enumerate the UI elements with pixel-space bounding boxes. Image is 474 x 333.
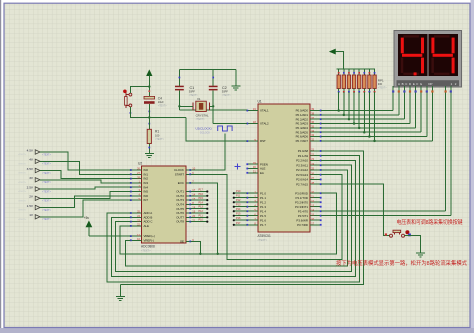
wire net OE joins bus: [190, 241, 200, 253]
svg-text:P1.4: P1.4: [260, 209, 266, 213]
node junction VCC-button: [148, 85, 150, 87]
wire net P0.4 to segment E: [321, 92, 416, 129]
U1 pin 33 P0.6/AD6: [296, 133, 322, 138]
wire net VREF- bus to P2.4: [126, 170, 348, 266]
svg-text:AT89C51: AT89C51: [258, 234, 271, 238]
capacitor C4 10uF electrolytic: [130, 90, 168, 124]
battery V1 4.5V input source: [18, 148, 52, 156]
resistor R1 100: [147, 118, 164, 154]
display pin 1 digit common: [445, 86, 447, 93]
svg-text:EA: EA: [260, 171, 264, 175]
wire C1 to XTAL1 node: [178, 90, 180, 110]
U1 pin 13 P3.3/INT1: [295, 203, 322, 208]
display pin G: [426, 86, 428, 93]
U2 pin 26 IN0: [130, 167, 148, 172]
svg-text:P10: P10: [199, 219, 204, 222]
svg-text:30PF: 30PF: [189, 89, 196, 93]
U1 pin 37 P0.2/AD2: [296, 116, 322, 121]
ground for mode button: [416, 253, 425, 257]
node RST junction: [148, 116, 150, 118]
push button mode switch: [390, 230, 405, 237]
svg-text:RST: RST: [260, 139, 266, 143]
resistor RP1-8: [373, 69, 376, 93]
svg-text:<TEXT>: <TEXT>: [42, 200, 52, 203]
battery V7 1.5V input source: [18, 204, 52, 212]
U1 pin 27 P2.6/A14: [296, 176, 322, 181]
svg-text:P2.3/A11: P2.3/A11: [296, 163, 308, 167]
svg-text:IN7: IN7: [144, 198, 149, 202]
svg-text:DP: DP: [428, 82, 432, 86]
battery V8 1V input source: [18, 213, 52, 221]
wire net 1.5V to IN6: [40, 196, 131, 208]
U1 pin 35 P0.4/AD4: [296, 125, 322, 130]
svg-text:<TEXT>: <TEXT>: [18, 181, 27, 184]
wire net P0.3 to segment D: [321, 92, 410, 125]
U1 pin 5 P1.4: [246, 208, 266, 213]
U1 pin 18 XTAL2: [246, 120, 269, 125]
U1 pin 11 P3.1/TXD: [295, 194, 321, 199]
wire net P0.2 to segment C: [321, 92, 404, 120]
battery V6 2V input source: [18, 195, 52, 203]
display pin 2 digit common: [450, 86, 452, 93]
U1 pin 14 P3.4/T0: [298, 208, 322, 213]
wire net P0.0 to segment A: [321, 92, 393, 112]
U2 pin 23 ADD C: [130, 218, 153, 223]
svg-text:CRYSTAL: CRYSTAL: [196, 114, 209, 118]
U1 pin 26 P2.5/A13: [296, 171, 322, 176]
svg-text:P17: P17: [236, 222, 241, 225]
resistor RP1-6: [363, 69, 366, 93]
svg-text:<TEXT>: <TEXT>: [222, 94, 232, 97]
crystal X1: [193, 97, 209, 121]
svg-text:P11: P11: [199, 214, 204, 217]
svg-text:P14: P14: [199, 201, 204, 204]
svg-text:P0.7/AD7: P0.7/AD7: [296, 139, 309, 143]
wire clock source to U2 CLOCK pin: [190, 134, 225, 171]
wire crystal right to C2 node: [209, 105, 213, 107]
wire net ground bus to P2.0: [120, 151, 363, 285]
wire ground branch: [119, 285, 121, 297]
IC U2 ADC0808 body: [138, 162, 186, 253]
svg-text:P3.7/RD: P3.7/RD: [297, 223, 308, 227]
ground below R1: [145, 154, 154, 158]
node label P14 on U2 OUT4: [190, 201, 208, 205]
U1 pin 19 XTAL1: [246, 107, 269, 112]
svg-text:<TEXT>: <TEXT>: [18, 218, 27, 221]
battery V3 3.5V input source: [18, 167, 52, 175]
svg-text:P2.1/A9: P2.1/A9: [298, 154, 309, 158]
svg-text:P16: P16: [199, 193, 204, 196]
display segment label strip: [397, 80, 460, 86]
power VCC terminal for resistor pack: [330, 49, 344, 69]
resistor RP1-5: [357, 69, 360, 93]
U2 pin 22 ALE: [130, 223, 149, 228]
svg-text:P1.5: P1.5: [260, 214, 266, 218]
svg-text:P17: P17: [199, 189, 204, 192]
display pin A: [392, 86, 394, 93]
svg-text:<TEXT>: <TEXT>: [42, 163, 52, 166]
battery V5 2.5V input source: [18, 185, 52, 193]
wire cap common bus: [179, 69, 236, 71]
U1 pin 12 P3.2/INT0: [295, 199, 322, 204]
display pin D: [409, 86, 411, 93]
U1 pin 4 P1.3: [246, 203, 266, 208]
U1 pin 7 P1.6: [246, 217, 266, 222]
svg-text:<TEXT>: <TEXT>: [42, 190, 52, 193]
node label P15 on U1 P1.5: [233, 213, 247, 217]
U2 pin 6 START: [175, 171, 195, 176]
U2 pin 21 OUT8: [176, 218, 195, 223]
wire net ALE to P3.0: [120, 193, 336, 254]
wire C2 to XTAL2 node: [212, 90, 214, 123]
svg-text:30PF: 30PF: [222, 89, 229, 93]
decimal point of digit 1: [414, 72, 417, 75]
wire XTAL2 net: [213, 122, 247, 124]
svg-text:<TEXT>: <TEXT>: [18, 209, 27, 212]
U1 pin 15 P3.5/T1: [298, 212, 322, 217]
svg-text:<TEXT>: <TEXT>: [42, 181, 52, 184]
U2 pin 12 VREF(+): [130, 233, 155, 238]
svg-text:<TEXT>: <TEXT>: [158, 105, 168, 108]
red actuator dot of reset button: [123, 90, 127, 94]
svg-text:P1.3: P1.3: [260, 205, 266, 209]
node label P12 on U2 OUT6: [190, 210, 208, 214]
svg-text:P15: P15: [199, 197, 204, 200]
U1 pin 38 P0.1/AD1: [296, 112, 322, 117]
svg-text:P3.2/INT0: P3.2/INT0: [295, 200, 308, 204]
node label P16 on U2 OUT2: [190, 193, 208, 197]
node label P10 on U2 OUT8: [190, 219, 208, 223]
svg-text:P1.7: P1.7: [260, 223, 266, 227]
svg-text:P2.4/A12: P2.4/A12: [296, 168, 308, 172]
ground for caps: [231, 70, 240, 91]
svg-text:P13: P13: [236, 204, 241, 207]
wire RST rail down and to U1 RST pin: [186, 118, 247, 142]
U2 pin 9 OE: [180, 238, 194, 243]
U2 pin 2 IN4: [130, 184, 148, 189]
svg-text:P3.5/T1: P3.5/T1: [298, 214, 309, 218]
U2 pin 17 OUT1: [176, 188, 195, 193]
resistor RP1-4: [352, 69, 355, 93]
U1 pin 24 P2.3/A11: [296, 162, 321, 167]
wire net 2.5V to IN4: [40, 187, 131, 189]
svg-text:10uF: 10uF: [158, 100, 164, 104]
wire VCC to C4 top: [148, 87, 150, 97]
U1 pin 34 P0.5/AD5: [296, 129, 322, 134]
U1 pin 3 P1.2: [246, 199, 266, 204]
node label P17 on U2 OUT1: [190, 189, 208, 193]
node label P16 on U1 P1.6: [233, 217, 247, 221]
node junction OE: [199, 253, 201, 255]
power +5V terminal at ADC: [84, 216, 92, 236]
svg-text:P12: P12: [199, 210, 204, 213]
U1 pin 29 PSEN: [246, 161, 267, 166]
svg-text:P16: P16: [236, 217, 241, 220]
svg-text:P1.0: P1.0: [260, 191, 266, 195]
wire net 1V to IN7: [40, 200, 131, 217]
wire net START to P2.5: [190, 174, 341, 259]
svg-text:C2: C2: [222, 86, 227, 90]
node label P11 on U1 P1.1: [233, 195, 247, 199]
svg-text:X1: X1: [197, 97, 201, 101]
U1 pin 22 P2.1/A9: [298, 152, 322, 157]
U1 pin 25 P2.4/A12: [296, 167, 322, 172]
svg-text:<TEXT>: <TEXT>: [141, 248, 151, 252]
svg-text:P10: P10: [236, 190, 241, 193]
U2 pin 16 VREF(-): [130, 237, 154, 242]
IC U1 AT89C51 microcontroller body: [258, 100, 311, 242]
node marker on C2 wire: [212, 77, 214, 79]
svg-text:R1: R1: [155, 130, 159, 134]
node red marker at button left terminal: [385, 233, 387, 235]
svg-text:<TEXT>: <TEXT>: [18, 162, 27, 165]
wire net ADD C to P2.3: [116, 165, 352, 271]
resistor RP1-2: [342, 69, 345, 93]
node label P17 on U1 P1.7: [233, 222, 247, 226]
U2 pin 20 OUT7: [176, 214, 195, 219]
U2 pin 14 OUT2: [176, 193, 195, 198]
svg-text:1.5V: 1.5V: [27, 204, 34, 208]
svg-text:P2.5/A13: P2.5/A13: [296, 173, 308, 177]
svg-text:XTAL1: XTAL1: [260, 109, 269, 113]
U1 pin 17 P3.7/RD: [297, 222, 322, 227]
U2 pin 10 CLOCK: [174, 167, 196, 172]
U2 pin 27 IN1: [130, 171, 148, 176]
U1 pin 9 RST: [246, 138, 266, 143]
U2 pin 5 IN7: [130, 197, 148, 202]
svg-text:U2(CLOCK): U2(CLOCK): [196, 127, 212, 131]
U2 pin 28 IN2: [130, 175, 148, 180]
wire net P3.4 to display digit 1: [321, 93, 446, 212]
svg-text:VREF(-): VREF(-): [144, 238, 155, 242]
display pin DP: [431, 86, 433, 93]
svg-text:<TEXT>: <TEXT>: [42, 153, 52, 156]
svg-text:按下为电压表模式显示第一路，松开为8路轮流采集模式: 按下为电压表模式显示第一路，松开为8路轮流采集模式: [336, 259, 467, 267]
capacitor C1 30PF: [175, 70, 198, 97]
svg-text:P1.6: P1.6: [260, 218, 266, 222]
wire button bottom to RST rail: [130, 107, 186, 118]
U1 pin 10 P3.0/RXD: [295, 190, 321, 195]
svg-text:RP1: RP1: [378, 78, 384, 82]
U1 pin 2 P1.1: [246, 194, 266, 199]
svg-text:XTAL2: XTAL2: [260, 122, 269, 126]
U1 pin 23 P2.2/A10: [296, 157, 322, 162]
svg-text:C4: C4: [158, 96, 162, 100]
svg-text:ALE: ALE: [144, 224, 150, 228]
U1 pin 39 P0.0/AD0: [296, 107, 322, 112]
svg-text:3.5V: 3.5V: [27, 167, 34, 171]
svg-text:OUT8: OUT8: [176, 220, 184, 224]
svg-text:U1: U1: [258, 100, 262, 104]
wire net P0.5 to segment F: [321, 92, 421, 133]
svg-text:P1.2: P1.2: [260, 200, 266, 204]
wire net 3V to IN3: [40, 180, 131, 183]
U2 pin 1 IN3: [130, 180, 148, 185]
node label P11 on U2 OUT7: [190, 214, 208, 218]
svg-text:P3.1/TXD: P3.1/TXD: [295, 196, 308, 200]
wire net ADD A to P2.1: [107, 156, 360, 282]
svg-text:<TEXT>: <TEXT>: [258, 238, 268, 242]
U2 pin 4 IN6: [130, 193, 148, 198]
svg-text:P2.6/A14: P2.6/A14: [296, 178, 308, 182]
svg-text:P2.0/A8: P2.0/A8: [298, 149, 309, 153]
display pin B: [398, 86, 400, 93]
svg-text:EOC: EOC: [178, 181, 184, 185]
U2 pin 3 IN5: [130, 188, 148, 193]
node label P13 on U2 OUT5: [190, 206, 208, 210]
U1 pin 32 P0.7/AD7: [296, 138, 322, 143]
svg-text:C1: C1: [190, 86, 195, 90]
svg-text:<TEXT>: <TEXT>: [155, 138, 165, 141]
svg-text:2.5V: 2.5V: [27, 185, 34, 189]
U2 pin 25 ADD A: [130, 210, 152, 215]
node label P13 on U1 P1.3: [233, 204, 247, 208]
svg-text:+5v: +5v: [84, 216, 90, 220]
svg-text:P2.2/A10: P2.2/A10: [296, 159, 308, 163]
wire C4 bottom to RST node: [148, 104, 150, 118]
display pin C: [403, 86, 405, 93]
svg-text:P3.4/T0: P3.4/T0: [298, 209, 309, 213]
node marker on R1 top wire: [148, 147, 150, 149]
svg-text:DCLOCK: DCLOCK: [200, 131, 210, 134]
U1 pin 28 P2.7/A15: [296, 181, 322, 186]
svg-text:300: 300: [378, 82, 383, 86]
wire net 4.5V to IN0: [40, 152, 131, 170]
wire net 2V to IN5: [40, 192, 131, 199]
svg-text:P3.3/INT1: P3.3/INT1: [295, 205, 308, 209]
svg-text:<TEXT>: <TEXT>: [196, 118, 206, 121]
display pin F: [420, 86, 422, 93]
battery V4 3V input source: [18, 176, 52, 184]
U2 pin 15 OUT3: [176, 197, 195, 202]
svg-text:P14: P14: [236, 208, 241, 211]
wire net ADD B to P2.2: [112, 160, 356, 276]
wire net 3.5V to IN2: [40, 171, 131, 179]
node marker near mode button: [408, 234, 411, 237]
resistor RP1-3: [347, 69, 350, 93]
node origin marker blue cross: [235, 164, 241, 170]
capacitor C2 30PF: [209, 70, 232, 97]
wire resistor pack common bus: [337, 68, 375, 70]
U2 pin 18 OUT5: [176, 205, 195, 210]
node junction crystal-C2: [212, 105, 214, 107]
svg-text:<TEXT>: <TEXT>: [18, 153, 27, 156]
display pin E: [415, 86, 417, 93]
U1 pin 8 P1.7: [246, 222, 266, 227]
wire net 4V to IN1: [40, 161, 131, 174]
generator U2(CLOCK) DCLOCK source: [196, 126, 233, 134]
svg-text:ABCDEFG: ABCDEFG: [398, 82, 424, 86]
wire button top to VCC node: [130, 87, 149, 94]
resistor RP1-1: [337, 69, 340, 93]
svg-text:<TEXT>: <TEXT>: [42, 209, 52, 212]
svg-text:START: START: [175, 172, 184, 176]
7-segment display 2-digit red: [394, 31, 462, 88]
svg-text:P3.6/WR: P3.6/WR: [296, 218, 308, 222]
svg-text:U2: U2: [138, 162, 142, 166]
node label P15 on U2 OUT3: [190, 197, 208, 201]
U2 pin 7 EOC: [178, 180, 195, 185]
svg-text:4.5V: 4.5V: [27, 148, 34, 152]
resistor RP1-7: [368, 69, 371, 93]
svg-text:<TEXT>: <TEXT>: [378, 86, 388, 89]
wire crystal left to C1 node: [179, 105, 193, 107]
svg-text:<TEXT>: <TEXT>: [42, 218, 52, 221]
wire net P0.7 to segment DP: [321, 92, 432, 142]
wire net P3.5 to display digit 2: [321, 93, 451, 216]
svg-text:<TEXT>: <TEXT>: [42, 172, 52, 175]
U2 pin 24 ADD B: [130, 214, 153, 219]
svg-text:P2.7/A15: P2.7/A15: [296, 182, 308, 186]
svg-text:<TEXT>: <TEXT>: [18, 190, 27, 193]
svg-text:<TEXT>: <TEXT>: [18, 172, 27, 175]
svg-text:P1.1: P1.1: [260, 196, 266, 200]
svg-text:<TEXT>: <TEXT>: [18, 199, 27, 202]
node label P12 on U1 P1.2: [233, 199, 247, 203]
node junction EOC: [217, 253, 219, 255]
svg-text:电压表和可调8路采集切换按键: 电压表和可调8路采集切换按键: [397, 218, 463, 226]
svg-text:100: 100: [155, 133, 160, 137]
svg-text:OE: OE: [180, 240, 184, 244]
node junction crystal-C1: [178, 105, 180, 107]
resistor pack RP1 label: [378, 78, 388, 89]
wire net P0.1 to segment B: [321, 92, 399, 116]
ground at bottom bus: [116, 297, 125, 301]
svg-text:P15: P15: [236, 213, 241, 216]
wire XTAL1 net: [179, 109, 247, 111]
node marker on C1 wire: [179, 77, 181, 79]
svg-text:P11: P11: [236, 195, 241, 198]
wire net EOC joins bus: [190, 183, 217, 254]
U1 pin 36 P0.3/AD3: [296, 120, 322, 125]
push button reset switch: [125, 92, 132, 108]
U1 pin 30 ALE: [246, 165, 265, 170]
wire mode button to ground: [405, 236, 421, 253]
node label P10 on U1 P1.0: [233, 190, 247, 194]
wire net P2.7 to mode button: [321, 184, 390, 236]
U1 pin 31 EA: [246, 170, 264, 175]
svg-text:P12: P12: [236, 199, 241, 202]
battery V2 4V input source: [18, 158, 52, 166]
U2 pin 19 OUT6: [176, 210, 195, 215]
svg-text:P3.0/RXD: P3.0/RXD: [295, 191, 308, 195]
U1 pin 21 P2.0/A8: [298, 148, 322, 153]
U2 pin 8 OUT4: [176, 201, 194, 206]
svg-text:ADC0808: ADC0808: [141, 245, 155, 249]
node label P14 on U1 P1.4: [233, 208, 247, 212]
wire net P0.6 to segment G: [321, 92, 427, 138]
U1 pin 6 P1.5: [246, 212, 266, 217]
U1 pin 1 P1.0: [246, 190, 266, 195]
svg-text:P13: P13: [199, 206, 204, 209]
power +5V terminal above C4: [147, 70, 152, 86]
wire +5V to VREF(+): [89, 235, 131, 237]
U1 pin 16 P3.6/WR: [296, 217, 321, 222]
red actuator dot of mode button: [405, 230, 409, 234]
